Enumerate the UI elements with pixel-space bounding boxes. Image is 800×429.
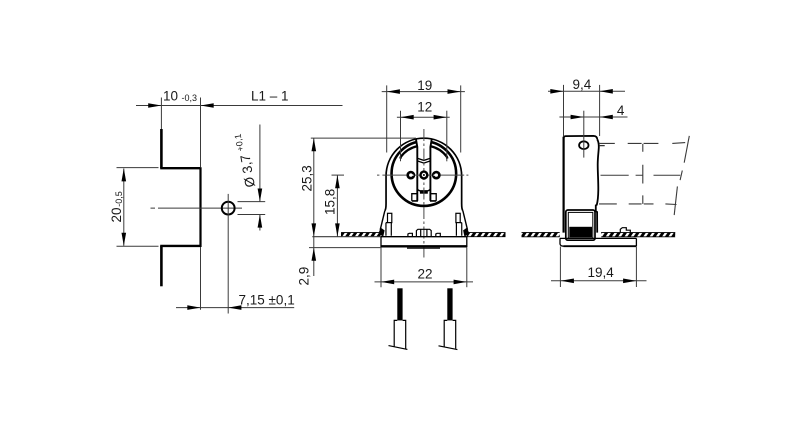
center pin guide block <box>416 229 431 236</box>
latch catch bump on panel <box>620 228 630 233</box>
left spring arm <box>380 211 385 230</box>
svg-text:7,15 ±0,1: 7,15 ±0,1 <box>239 293 295 308</box>
left wire sleeve <box>394 320 406 349</box>
holder upper arm (thick edge line) <box>160 129 163 168</box>
lamp tube bottom dashed <box>599 203 677 206</box>
svg-text:22: 22 <box>418 266 433 281</box>
20 arrow up <box>122 168 127 181</box>
hole vertical centerline <box>583 139 585 157</box>
flange left edge <box>380 237 382 248</box>
flange bottom center recess line <box>407 247 440 249</box>
dia 3,7 dimension vertical line lower <box>259 215 261 231</box>
9,4 left extension line (body face) <box>563 85 565 136</box>
rotor edge arc left (eyebrow) <box>400 146 417 159</box>
lamp tube top dashed <box>599 142 685 145</box>
svg-text:19: 19 <box>417 78 432 93</box>
20 arrow down <box>122 233 127 246</box>
svg-text:2,9: 2,9 <box>296 267 311 286</box>
body left face <box>562 137 564 233</box>
dia 3,7 dimension vertical line upper <box>259 125 261 202</box>
left wire pin (black) <box>397 288 402 320</box>
right latch foot (black) <box>463 228 469 237</box>
lamp break line bottom <box>674 186 677 215</box>
left latch channel <box>386 223 391 236</box>
vertical centerline <box>423 129 425 258</box>
holder body top edge <box>160 167 200 169</box>
body right edge wavy profile <box>596 140 599 233</box>
horizontal centerline <box>377 174 468 176</box>
9,4 dimension <box>548 90 625 92</box>
left latch heel block <box>388 213 392 222</box>
rotor bottom notch left <box>412 194 418 201</box>
contact hole left <box>406 171 415 180</box>
19,4 dimension <box>551 280 647 282</box>
9,4 right extension line <box>599 85 601 136</box>
4 dimension <box>559 116 627 118</box>
inner recess circle <box>392 141 457 206</box>
panel hatch left of body <box>341 232 381 237</box>
contact block inner <box>568 212 593 238</box>
holder body bottom edge <box>160 245 200 247</box>
svg-text:L1 – 1: L1 – 1 <box>251 88 289 103</box>
dimension line 10 / L1-1 <box>136 105 343 107</box>
25,3 extension line top <box>311 137 416 139</box>
peg left on flange <box>408 233 413 236</box>
flange top line <box>381 236 467 238</box>
arrow left toward 200.5 <box>201 103 214 108</box>
mounting hole (ellipse) <box>579 141 588 149</box>
extension from circle bottom <box>238 214 266 216</box>
15,8 dimension <box>336 175 338 237</box>
panel hatch right of body <box>467 232 506 237</box>
lamp break line top <box>684 136 689 163</box>
pin hole circle <box>222 202 235 215</box>
rotor bottom notch right <box>430 194 436 201</box>
20 extension line bottom <box>117 245 159 247</box>
contact block fill (black) <box>569 227 592 238</box>
flange right edge <box>466 237 468 248</box>
body left side <box>385 175 386 211</box>
rotor bottom tab (black) <box>417 189 430 191</box>
19 dimension <box>382 91 465 93</box>
right wire pin (black) <box>447 288 452 320</box>
pin stop bridge lower chevron <box>417 161 430 163</box>
outer housing arc <box>386 138 462 176</box>
center line through pin hole <box>151 207 243 209</box>
flange top line <box>560 237 636 239</box>
2,9 extension at flange bottom <box>309 247 381 249</box>
left latch foot (black) <box>378 228 384 237</box>
panel hatch left <box>522 232 560 237</box>
20 dimension line <box>123 169 125 246</box>
left wire break line <box>389 346 408 350</box>
extension from circle top <box>238 201 266 203</box>
svg-text:4: 4 <box>617 103 625 118</box>
extension line for 10 dim <box>160 98 162 130</box>
svg-text:25,3: 25,3 <box>299 165 314 191</box>
svg-text:-0,3: -0,3 <box>182 93 198 103</box>
hole vertical center/extension line <box>227 194 229 314</box>
2,9 dimension line lower <box>313 237 315 276</box>
4 extension line (hole center) <box>583 111 585 140</box>
wall extension line above <box>200 98 202 168</box>
body top edge <box>564 136 598 140</box>
panel hatch right <box>601 232 675 237</box>
22 dimension <box>375 281 474 283</box>
dia arrow up <box>258 214 263 227</box>
arrow right toward 161.4 <box>148 103 161 108</box>
body right side <box>462 175 463 211</box>
flange bottom line <box>564 245 637 247</box>
flange left end <box>560 238 564 246</box>
svg-text:9,4: 9,4 <box>573 77 592 92</box>
right latch channel <box>456 223 461 236</box>
slot corridor erase <box>417 133 431 162</box>
svg-text:19,4: 19,4 <box>588 265 615 280</box>
pin stop bridge upper chevron <box>417 158 430 160</box>
lamp centerline dash-dot <box>601 174 681 176</box>
wall extension line below <box>200 247 202 310</box>
svg-text:12: 12 <box>417 100 432 115</box>
rotor edge arc right (eyebrow) <box>430 146 447 159</box>
slot left line <box>416 139 417 201</box>
19,4 left extension line <box>559 247 561 288</box>
lamp face vertical dashed <box>642 144 644 204</box>
contact block outer <box>566 210 595 240</box>
25,3 dimension line <box>313 138 315 237</box>
contact hole right <box>432 171 441 180</box>
right wire break line <box>439 346 458 350</box>
svg-text:10: 10 <box>163 88 178 103</box>
right latch heel block <box>456 213 460 222</box>
12 dimension <box>397 116 450 118</box>
right wire sleeve <box>444 320 456 348</box>
7,15 arrow right <box>187 305 200 310</box>
right spring arm <box>463 211 468 230</box>
20 extension line top <box>117 167 159 169</box>
flange right edge <box>635 238 637 246</box>
rotor bottom shelf <box>412 200 436 202</box>
slot right line <box>430 139 431 201</box>
dia arrow down <box>258 189 263 202</box>
lamp break line middle <box>680 171 682 181</box>
holder lower arm (thick edge line) <box>160 246 163 286</box>
holder front face (wall) thick segment <box>199 167 201 247</box>
peg right on flange <box>436 233 441 236</box>
7,15 arrow left <box>228 305 241 310</box>
center block inner verticals <box>421 229 427 236</box>
flange bottom thick line <box>381 245 467 247</box>
svg-text:15,8: 15,8 <box>323 189 338 215</box>
7,15 dimension line <box>176 307 294 309</box>
small tick right of top corner <box>600 145 605 147</box>
contact hole center <box>419 170 428 179</box>
panel line left <box>312 236 381 238</box>
